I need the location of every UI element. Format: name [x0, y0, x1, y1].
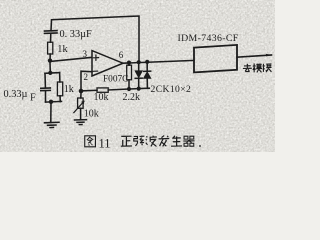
svg-text:0. 33µF: 0. 33µF [60, 29, 93, 40]
node H bottom of R3 [127, 87, 131, 91]
node B top of parallel RC [48, 71, 52, 75]
wire node A down to parallel RC [49, 62, 51, 73]
wire top feedback from Wien branch to output node [51, 16, 139, 62]
char 模 [253, 63, 262, 72]
char 器 [183, 136, 194, 146]
diode D1 2CK10 [135, 62, 142, 88]
wire node A to op-amp pin 3 [52, 57, 92, 61]
node E output node top of 2.2k [127, 61, 131, 65]
char 正 [121, 136, 132, 146]
svg-text:3: 3 [83, 49, 88, 59]
wire bottom bar of parallel RC loop [46, 100, 62, 103]
svg-text:2: 2 [84, 72, 89, 82]
caption period [199, 145, 201, 147]
wire op-amp output to module box [123, 60, 194, 63]
node F top of diode D1 [137, 60, 141, 64]
node I bottom of D1 [137, 87, 141, 91]
node A junction of Wien network [48, 58, 52, 62]
diode D2 2CK10 [144, 62, 151, 88]
wire output arrow from module box [237, 54, 272, 57]
resistor R3 2.2k vertical [127, 63, 132, 89]
module box U2 IDM-7436-CF [194, 45, 237, 73]
op-amp U1 F007C [92, 51, 123, 76]
plus sign non-inverting input [93, 55, 98, 60]
svg-text:2.2k: 2.2k [123, 92, 141, 103]
svg-text:2CK10×2: 2CK10×2 [151, 84, 192, 95]
svg-text:IDM-7436-CF: IDM-7436-CF [178, 33, 239, 44]
svg-text:1k: 1k [57, 44, 68, 55]
ground G2 [75, 120, 87, 125]
wire node C down to ground [50, 102, 52, 122]
wire node D to resistor R2 [83, 89, 97, 92]
svg-text:6: 6 [119, 50, 124, 60]
svg-text:10k: 10k [84, 108, 99, 119]
wire pin 2 to feedback node [81, 71, 92, 91]
node C bottom of parallel RC [49, 100, 53, 104]
char 波 [146, 136, 157, 147]
node D inverting feedback node [79, 89, 84, 94]
char 弦 [134, 135, 145, 145]
char 生 [171, 136, 182, 146]
svg-text:10k: 10k [94, 92, 109, 103]
resistor R5 1k [57, 82, 62, 102]
svg-text:1k: 1k [64, 84, 74, 95]
caption figure 11 sine wave generator [85, 135, 201, 150]
char 图 [85, 136, 96, 147]
potentiometer R4 10k [74, 93, 84, 120]
char 发 [159, 136, 170, 147]
label 去模拟 to output [243, 63, 272, 72]
node G top of diode D2 [145, 60, 149, 64]
svg-text:F007C: F007C [103, 75, 128, 85]
ground G1 [45, 122, 60, 127]
char dense glyph [262, 64, 271, 72]
wire top bar of parallel RC loop [45, 72, 60, 75]
svg-text:0.33µ: 0.33µ [4, 89, 28, 100]
wire right leg down to resistor R5 [59, 73, 61, 82]
value label 0.33uF for C2 [4, 89, 37, 104]
capacitor C2 [41, 88, 51, 102]
capacitor C1 [45, 31, 58, 43]
svg-text:11: 11 [99, 136, 111, 150]
wire left leg down to capacitor C2 [44, 73, 46, 87]
minus sign inverting input [93, 70, 97, 72]
resistor R2 10k horizontal [97, 88, 149, 92]
char 去 [243, 64, 252, 72]
resistor R1 1k [48, 42, 53, 58]
svg-text:F: F [30, 92, 36, 103]
